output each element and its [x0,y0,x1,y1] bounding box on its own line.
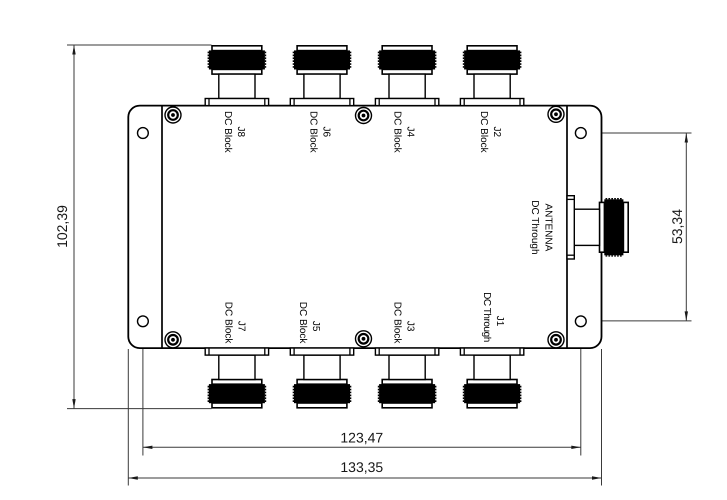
dimension 102,39 extension line top [67,44,212,46]
dimension 123,47 extension line left [142,321,144,455]
screw top-right [548,106,564,122]
screw top-middle [356,108,372,124]
antenna connector [567,196,628,259]
connector J6 [290,46,353,106]
svg-text:53,34: 53,34 [669,209,685,244]
mounting hole top-right [575,128,586,139]
body left edge line [161,106,163,347]
body right edge line [566,106,568,347]
connector J1 [460,348,523,408]
connector J5 [290,348,353,408]
connector J3 [375,348,438,408]
mounting hole top-left [138,128,149,139]
dimension 53,34 extension line bottom [588,320,692,322]
label J8 / DC Block [222,111,246,154]
dimension 102,39 line with arrows [72,45,75,409]
connector J8 [205,46,268,106]
screw bottom-right [548,332,564,348]
dimension 133,35 extension line right [601,349,603,486]
screw bottom-left [165,332,181,348]
base plate outline [128,106,601,349]
dimension 102,39 extension line bottom [67,408,212,410]
screw bottom-middle [356,331,372,347]
svg-text:102,39: 102,39 [54,205,70,248]
label J5 / DC Block [297,302,321,345]
dimension text 133,35 [340,459,383,475]
mounting hole bottom-right [575,316,586,327]
label ANTENNA / DC Through [529,200,554,254]
dimension 133,35 extension line left [127,349,129,486]
dimension 53,34 line with arrows [685,133,688,321]
dimension 53,34 extension line top [588,132,692,134]
mounting hole bottom-left [138,316,149,327]
label J6 / DC Block [308,111,332,154]
connector J4 [375,46,438,106]
label J7 / DC Block [223,302,247,345]
dimension 123,47 line with arrows [143,446,581,449]
connector J7 [205,348,268,408]
connector J2 [460,46,523,106]
dimension text 102,39 [54,205,70,248]
label J2 / DC Block [478,111,502,154]
dimension text 53,34 [669,209,685,244]
label J4 / DC Block [391,111,415,154]
svg-text:133,35: 133,35 [340,459,383,475]
dimension 123,47 extension line right [580,321,582,455]
dimension text 123,47 [340,429,383,445]
dimension 133,35 line with arrows [128,476,601,479]
svg-text:123,47: 123,47 [340,429,383,445]
screw top-left [165,107,181,123]
label J1 / DC Through [481,292,505,342]
label J3 / DC Block [391,302,415,345]
